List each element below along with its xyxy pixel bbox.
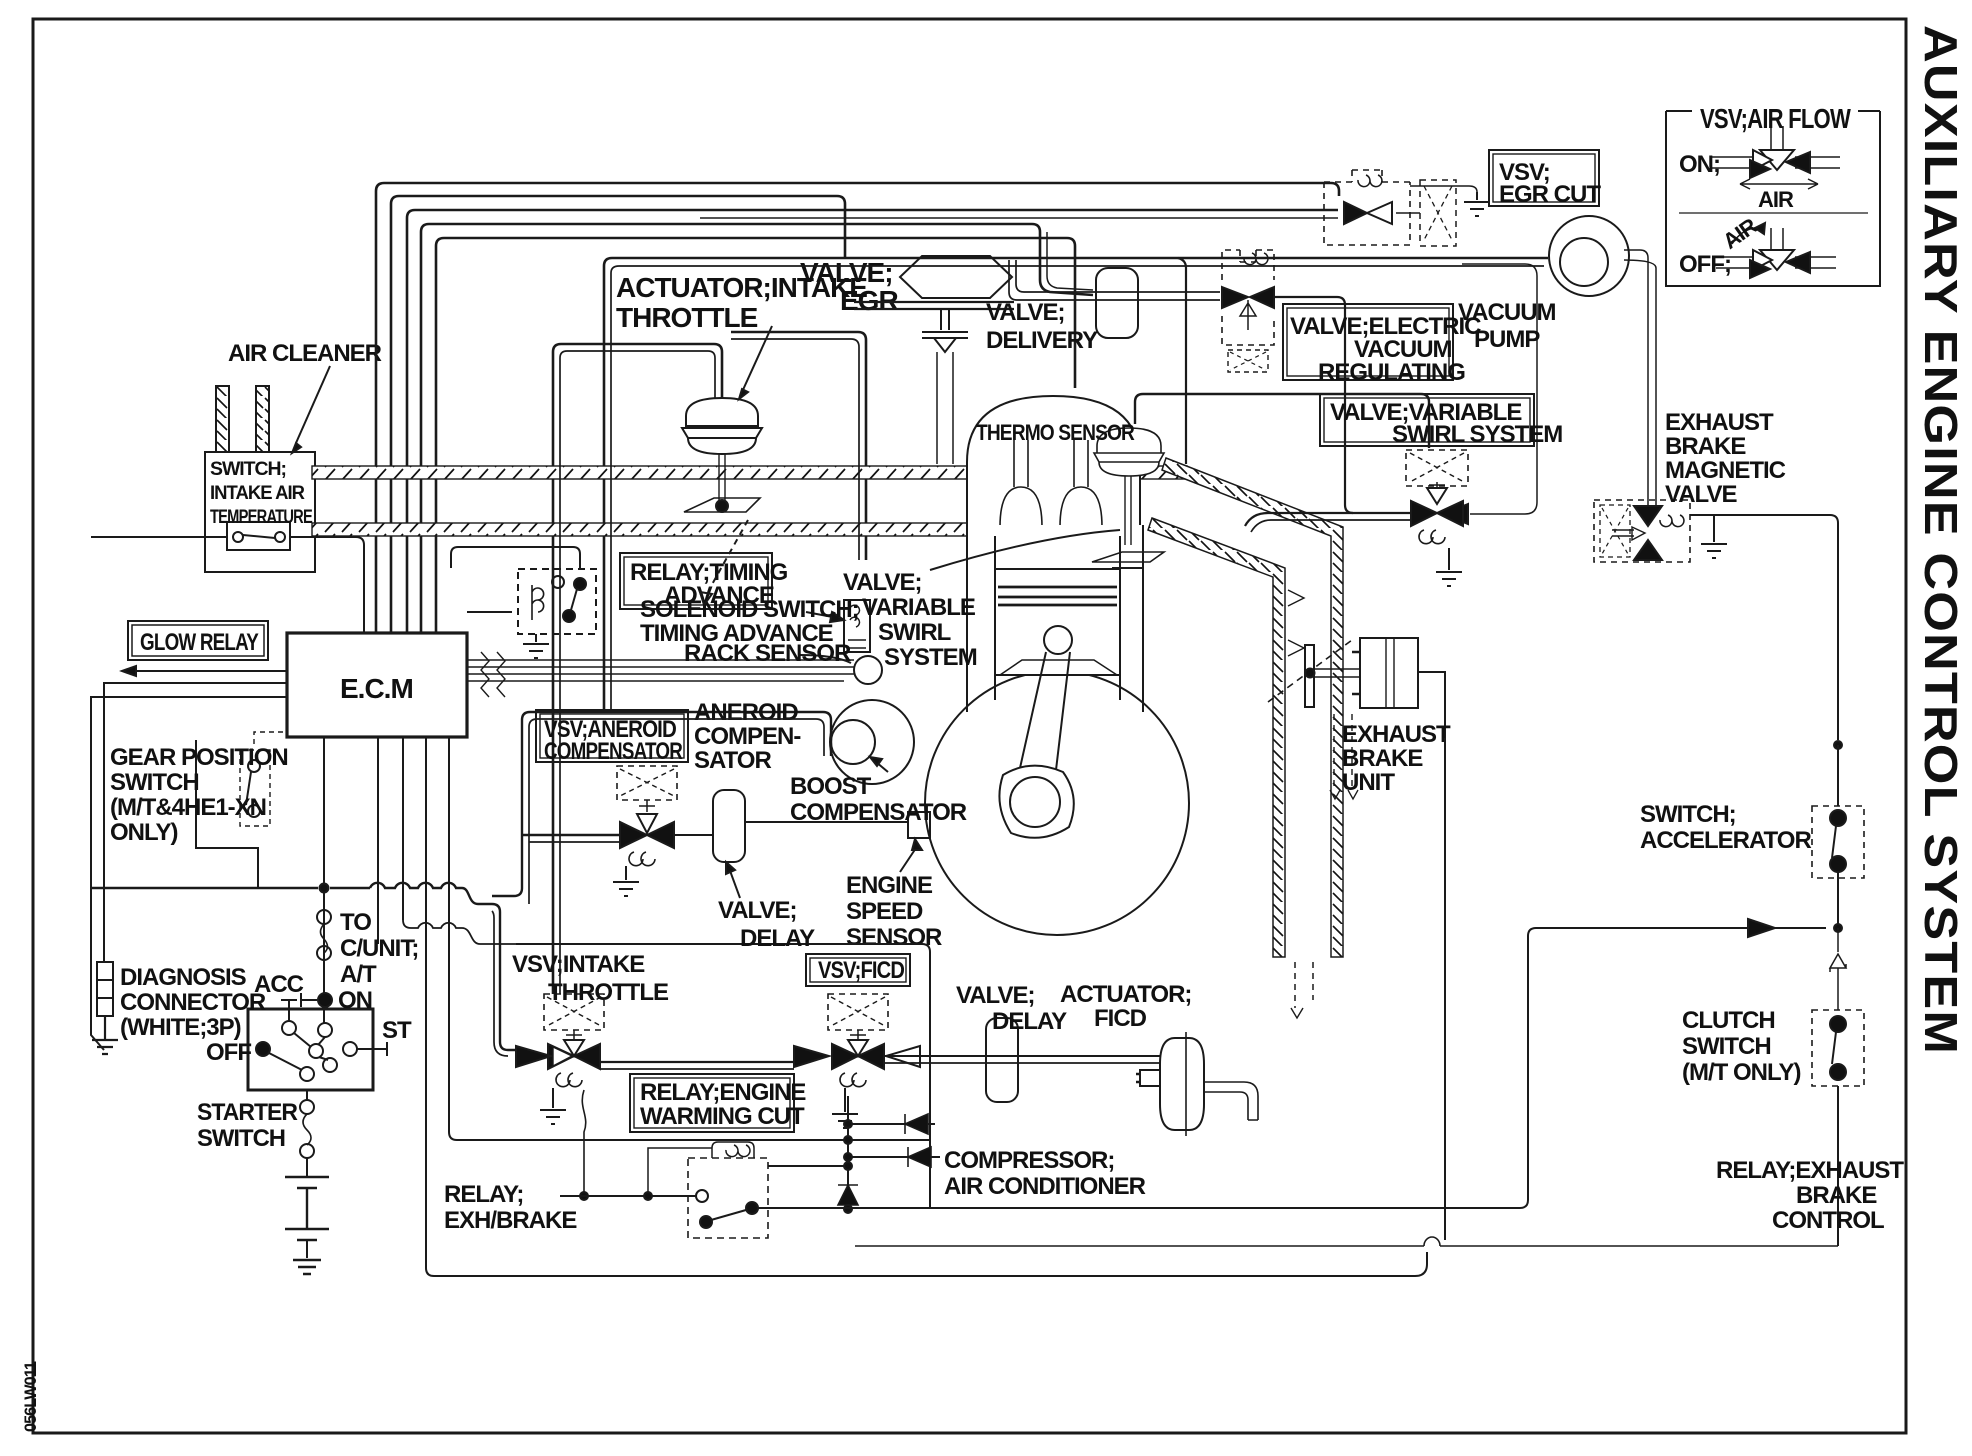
svg-text:TEMPERATURE: TEMPERATURE	[210, 507, 312, 528]
boost compensator outer	[830, 700, 914, 784]
hose aneroid valve left loop	[492, 712, 831, 896]
svg-text:THERMO SENSOR: THERMO SENSOR	[976, 420, 1135, 445]
hose vacuum pump to magnetic valve	[1624, 250, 1656, 506]
exhaust brake unit canister	[1360, 638, 1418, 708]
exhaust duct wall lower (hatched band)	[1148, 518, 1285, 957]
exhaust duct wall upper (hatched band)	[1162, 458, 1343, 957]
wire W1 ECM to exhaust-brake magnetic valve (top loop)	[376, 183, 1339, 633]
relay exh/brake contacts	[696, 1190, 708, 1202]
glow relay boxed label	[128, 621, 268, 660]
piston crown and rings	[995, 569, 1120, 675]
arrow on accel wire	[1748, 919, 1775, 937]
vertical from exhaust unit to lower wire	[1444, 738, 1446, 1240]
crank big end	[999, 766, 1073, 838]
legend ON valve white triangle	[1760, 150, 1794, 170]
svg-text:EXH/BRAKE: EXH/BRAKE	[444, 1207, 577, 1234]
svg-text:UNIT: UNIT	[1342, 769, 1395, 796]
connecting rod	[1020, 652, 1070, 770]
ON terminal dot	[318, 993, 332, 1007]
regulating valve pilot up-arrow	[1240, 300, 1256, 330]
piston pin	[1044, 626, 1072, 654]
hose aneroid valve to delay valve	[674, 834, 713, 836]
svg-text:PUMP: PUMP	[1474, 326, 1540, 353]
svg-text:AUXILIARY ENGINE CONTROL SYSTE: AUXILIARY ENGINE CONTROL SYSTEM	[1915, 25, 1967, 1055]
svg-text:ACC: ACC	[254, 971, 304, 998]
dashed leader butterfly to relay	[710, 520, 748, 588]
svg-text:AIR CLEANER: AIR CLEANER	[228, 340, 382, 367]
legend OFF right pipe + black arrow	[1795, 257, 1836, 268]
VSV intake throttle coil	[556, 1073, 582, 1087]
legend divider	[1679, 212, 1868, 214]
magnetic valve coil	[1660, 515, 1684, 527]
dashed leaders to exhaust brake unit label	[1334, 714, 1352, 790]
swirl VSV pilot triangle	[1427, 488, 1447, 504]
svg-text:SOLENOID SWITCH;: SOLENOID SWITCH;	[640, 596, 859, 623]
ON tick symbol	[301, 993, 317, 1007]
thermo intake funnels	[1000, 440, 1102, 527]
magnetic valve top black triangle	[1634, 506, 1662, 526]
vacuum pump inner circle	[1560, 238, 1608, 286]
magnetic valve left X dashed box	[1600, 505, 1630, 557]
ground below battery	[293, 1260, 321, 1274]
regulating valve coil	[1244, 253, 1268, 265]
legend OFF valve stem	[1771, 228, 1783, 250]
routing rect top wire	[516, 944, 930, 1209]
routing rect bottom wire	[434, 1252, 1427, 1276]
relay exh/brake coil	[712, 1142, 754, 1158]
svg-text:RACK SENSOR: RACK SENSOR	[684, 640, 851, 667]
aneroid VSV pilot triangle	[637, 814, 657, 833]
ECM bottom wire E	[449, 737, 930, 1140]
EGR cut coil	[1358, 175, 1382, 187]
EGR valve body	[900, 256, 1012, 298]
diagnosis connector ground	[92, 1016, 118, 1054]
svg-text:SWIRL: SWIRL	[878, 619, 951, 646]
relay exh/brake wire to coil top	[648, 1148, 712, 1196]
svg-text:EGR: EGR	[840, 285, 898, 316]
svg-text:C/UNIT;: C/UNIT;	[340, 935, 418, 962]
svg-text:ANEROID: ANEROID	[694, 699, 798, 726]
boxed label RELAY;TIMING ADVANCE	[620, 553, 772, 609]
svg-text:ON: ON	[338, 987, 372, 1014]
EGR valve outlet pipe	[937, 352, 953, 464]
svg-text:VSV;INTAKE: VSV;INTAKE	[512, 951, 645, 978]
exhaust flow arrows	[1288, 590, 1304, 656]
loop-B inner line	[611, 266, 1544, 712]
aneroid VSV dashed body	[617, 766, 677, 800]
diode 3 vertical	[838, 1185, 858, 1205]
legend AIR double arrow	[1740, 179, 1818, 189]
accelerator contacts	[1830, 810, 1846, 826]
svg-text:056LW011: 056LW011	[21, 1361, 40, 1432]
wire W2 ECM to EGR valve	[391, 196, 845, 633]
hose H_A inner line	[560, 351, 715, 994]
svg-text:VALVE;: VALVE;	[800, 257, 893, 288]
solenoid switch timing advance body	[844, 600, 870, 652]
swirl VSV dashed body	[1406, 450, 1468, 486]
svg-text:ONLY): ONLY)	[110, 819, 177, 846]
swirl VSV ground	[1436, 548, 1462, 586]
EGR cut side dashed box with X	[1420, 180, 1456, 246]
boxed label VSV;FICD	[806, 954, 910, 986]
svg-text:ENGINE: ENGINE	[846, 872, 933, 899]
hose swirl diaphragm to swirl VSV	[1135, 394, 1429, 448]
engine speed sensor leader	[900, 845, 918, 872]
intake manifold lower wall (hatched)	[312, 523, 967, 536]
leader valve variable swirl label	[930, 530, 1120, 570]
hose into swirl VSV from engine	[1245, 513, 1411, 526]
ECM bottom wire D	[426, 737, 434, 1276]
exhaust brake unit rod	[1314, 669, 1360, 677]
EGR valve flange bar	[854, 302, 1014, 309]
arrow into FICD VSV	[794, 1046, 829, 1067]
ECM bottom wire B	[377, 737, 379, 944]
svg-text:DELIVERY: DELIVERY	[986, 327, 1098, 354]
svg-text:CONTROL: CONTROL	[1772, 1207, 1884, 1234]
relay right wire up	[768, 1165, 848, 1167]
boxed label VALVE;ELECTRIC VACUUM REGULATING	[1283, 304, 1453, 380]
svg-text:RELAY;: RELAY;	[444, 1181, 523, 1208]
left vertical wire 2	[91, 697, 287, 1050]
svg-text:GLOW RELAY: GLOW RELAY	[140, 629, 259, 656]
wire magnetic valve to right bus	[1690, 515, 1838, 740]
wire W3 ECM to VSV EGR cut	[407, 210, 1338, 633]
connector circles TO C/UNIT	[317, 910, 331, 924]
horizontal wire y=886 with hops	[91, 883, 516, 1050]
swirl butterfly	[1092, 552, 1164, 562]
hose to intake throttle actuator	[553, 344, 722, 994]
svg-text:VALVE;: VALVE;	[956, 982, 1034, 1009]
exhaust brake butterfly plate	[1305, 645, 1314, 707]
VSV air flow legend box	[1666, 111, 1880, 286]
boxed label VSV;ANEROID COMPENSATOR	[536, 710, 688, 762]
actuator FICD outlet pipe	[1204, 1082, 1258, 1120]
air cleaner inlet post 1 (hatched)	[216, 386, 229, 452]
hose loop-B around actuator label	[604, 258, 1548, 712]
svg-text:COMPRESSOR;: COMPRESSOR;	[944, 1147, 1114, 1174]
legend ON right pipe + black arrow	[1795, 157, 1840, 168]
svg-text:A/T: A/T	[340, 961, 377, 988]
svg-text:VALVE;: VALVE;	[843, 569, 921, 596]
junction at right bus	[1834, 741, 1842, 749]
junction dot ON-wire	[320, 884, 329, 893]
delay valve capsule (left)	[713, 790, 745, 862]
wire aneroid bowtie to loop	[522, 834, 620, 836]
VSV EGR cut dashed body	[1324, 170, 1410, 245]
wire W5 ECM to thermo area	[436, 238, 1075, 633]
svg-text:CLUTCH: CLUTCH	[1682, 1007, 1775, 1034]
battery feed below switch	[306, 1090, 308, 1100]
regulating valve bowtie arrow	[1222, 287, 1248, 308]
wire W4 ECM to delivery valve	[421, 224, 1093, 633]
wire EGR cut box to ground	[1410, 186, 1477, 192]
open arrow right of FICD VSV	[886, 1046, 920, 1067]
svg-text:SWITCH: SWITCH	[1682, 1033, 1771, 1060]
hose branch to delivery/dome area	[1178, 258, 1186, 464]
VSV intake throttle bowtie	[548, 1044, 600, 1069]
diagnosis connector body	[97, 962, 113, 980]
starter switch box	[248, 1009, 373, 1090]
VSV intake throttle dashed body	[544, 994, 604, 1030]
compressor diode wire 1	[848, 1123, 935, 1125]
relay ground	[523, 634, 549, 658]
magnetic valve bottom black triangle	[1634, 540, 1662, 560]
aneroid bowtie wire inner line	[529, 841, 620, 843]
switch accelerator dashed box	[1812, 806, 1864, 878]
boost compensator inner	[831, 720, 875, 764]
boxed label VSV;EGR CUT	[1489, 150, 1599, 206]
VSV FICD pilot triangle	[848, 1040, 868, 1056]
svg-text:OFF: OFF	[206, 1039, 251, 1066]
svg-text:EGR CUT: EGR CUT	[1499, 181, 1601, 208]
svg-text:VARIABLE: VARIABLE	[862, 594, 976, 621]
VSV FICD dashed body	[828, 994, 888, 1030]
wire accel to junction	[1837, 872, 1839, 928]
svg-text:ON;: ON;	[1679, 151, 1720, 178]
battery symbol	[285, 1177, 329, 1240]
ACC lever	[281, 1000, 297, 1021]
cylinder walls	[967, 525, 1143, 712]
delivery valve capsule	[1096, 268, 1138, 338]
svg-text:MAGNETIC: MAGNETIC	[1665, 457, 1786, 484]
svg-text:ACTUATOR;: ACTUATOR;	[1060, 981, 1191, 1008]
arrow into intake VSV	[516, 1046, 551, 1067]
VSV intake throttle ground	[540, 1088, 566, 1124]
air cleaner inlet post 2 (hatched)	[256, 386, 269, 452]
svg-text:INTAKE AIR: INTAKE AIR	[210, 483, 305, 504]
relay timing advance dashed box	[518, 569, 596, 634]
svg-text:VALVE;: VALVE;	[986, 299, 1064, 326]
svg-text:THROTTLE: THROTTLE	[548, 979, 669, 1006]
wire arrow to glow relay	[128, 670, 287, 672]
svg-text:BRAKE: BRAKE	[1342, 745, 1423, 772]
svg-text:GEAR POSITION: GEAR POSITION	[110, 744, 288, 771]
air cleaner leader arrow	[296, 366, 330, 443]
relay output long wire	[758, 928, 1826, 1208]
intake manifold upper wall (hatched)	[312, 466, 1187, 479]
rack sensor leader	[800, 655, 851, 663]
svg-text:OFF;: OFF;	[1679, 251, 1731, 278]
svg-text:THROTTLE: THROTTLE	[616, 302, 758, 333]
thermo sensor dome	[967, 396, 1140, 528]
svg-text:(M/T ONLY): (M/T ONLY)	[1682, 1059, 1800, 1086]
aneroid VSV coil	[629, 852, 655, 866]
valve electric vacuum regulating dashed body	[1222, 250, 1274, 345]
ECM bottom wire C	[402, 737, 404, 920]
hose ECM-right to timing advance relay	[451, 547, 580, 612]
compressor branch vertical	[847, 1096, 849, 1209]
VSV FICD coil	[840, 1073, 866, 1087]
swirl actuator diaphragm	[1094, 428, 1164, 476]
svg-text:VSV;AIR FLOW: VSV;AIR FLOW	[1700, 103, 1851, 134]
svg-text:BRAKE: BRAKE	[1796, 1182, 1877, 1209]
svg-text:WARMING CUT: WARMING CUT	[640, 1103, 805, 1130]
wire from EGR-cut X-box arrow	[1396, 212, 1420, 214]
magnetic valve white arrow from X-box	[1612, 527, 1645, 540]
svg-text:COMPEN-: COMPEN-	[694, 723, 801, 750]
clutch contacts	[1830, 1016, 1846, 1032]
FICD-actuator hose inner line	[884, 1062, 1160, 1064]
ST terminal	[357, 1042, 387, 1056]
delivery feed inner line	[1047, 232, 1093, 290]
svg-text:(M/T&4HE1-XN: (M/T&4HE1-XN	[110, 794, 266, 821]
svg-text:RELAY;EXHAUST: RELAY;EXHAUST	[1716, 1157, 1904, 1184]
actuator FICD bolt	[1140, 1070, 1160, 1086]
legend ON valve: stem lines	[1771, 126, 1783, 150]
wire crossing squiggle	[481, 652, 505, 697]
legend OFF left pipe + white arrow	[1716, 257, 1753, 268]
solenoid leader arrow	[806, 612, 838, 618]
svg-text:VSV;FICD: VSV;FICD	[818, 957, 905, 984]
hose H_B inner line	[731, 339, 859, 560]
cylinder block mask	[967, 525, 1143, 675]
svg-text:SWITCH;: SWITCH;	[1640, 801, 1736, 828]
boxed label RELAY;ENGINE WARMING CUT	[630, 1074, 794, 1132]
svg-text:REGULATING: REGULATING	[1318, 359, 1465, 386]
svg-text:COMPENSATOR: COMPENSATOR	[544, 738, 683, 765]
svg-text:AIR CONDITIONER: AIR CONDITIONER	[944, 1173, 1146, 1200]
svg-text:DIAGNOSIS: DIAGNOSIS	[120, 964, 247, 991]
wire intake VSV to FICD VSV	[600, 1061, 794, 1063]
wire delay to speed sensor	[745, 821, 908, 823]
actuator FICD capsule	[1160, 1038, 1204, 1130]
svg-text:SWITCH: SWITCH	[110, 769, 199, 796]
svg-text:FICD: FICD	[1094, 1005, 1147, 1032]
svg-text:AIR: AIR	[1758, 187, 1794, 212]
wire from temp sensor to left bus	[91, 536, 227, 538]
legend OFF white triangle	[1760, 250, 1794, 270]
svg-text:AIR: AIR	[1718, 213, 1762, 254]
relay exh/brake dashed box	[688, 1158, 768, 1238]
boxed label VALVE;VARIABLE SWIRL SYSTEM	[1320, 394, 1534, 446]
intake-FICD hose inner line	[600, 1068, 794, 1070]
wire clutch down to lower bus	[1837, 1086, 1839, 1246]
wire intake VSV coil to exh relay	[582, 1090, 585, 1192]
ground left of VSV EGR cut label	[1464, 192, 1490, 216]
flywheel circle	[925, 671, 1189, 935]
svg-text:SWITCH;: SWITCH;	[210, 459, 286, 480]
relay coil	[532, 585, 544, 620]
svg-text:COMPENSATOR: COMPENSATOR	[790, 799, 967, 826]
svg-text:SPEED: SPEED	[846, 898, 923, 925]
ECM bottom wire A (ignition feed)	[323, 737, 325, 1023]
gear position switch contacts	[196, 740, 258, 888]
switch; intake air temperature box	[205, 452, 315, 572]
label leader actuator intake throttle	[742, 326, 772, 392]
svg-text:TO: TO	[340, 909, 371, 936]
legend ON left pipe + white arrow	[1712, 157, 1753, 168]
svg-text:VALVE;: VALVE;	[718, 897, 796, 924]
delay valve capsule (right)	[986, 1018, 1018, 1102]
swirl feed inner line	[1251, 520, 1411, 532]
actuator intake throttle diaphragm	[686, 398, 758, 426]
swirl VSV coil	[1419, 530, 1445, 544]
svg-text:BRAKE: BRAKE	[1665, 433, 1746, 460]
wires ECM to rack sensor (4)	[467, 660, 854, 681]
boost compensator leader	[876, 762, 888, 772]
wire W3b parallel line into EGR cut valve	[700, 217, 1338, 219]
svg-text:CONNECTOR: CONNECTOR	[120, 989, 266, 1016]
right bus wire down through accelerator switch	[1837, 745, 1839, 806]
wire from exhaust brake unit	[1418, 672, 1445, 738]
regulating valve lower X dashed box	[1228, 350, 1268, 372]
svg-text:ST: ST	[382, 1017, 412, 1044]
hose to solenoid/boost branch	[731, 332, 866, 560]
diode 2	[908, 1147, 931, 1167]
compressor diode wire 2	[848, 1156, 940, 1158]
relay exh/brake left wires	[560, 1195, 696, 1197]
relay contacts	[552, 576, 564, 588]
wire FICD valve to actuator	[884, 1055, 1160, 1057]
piston skirt	[1000, 660, 1117, 675]
svg-text:ACCELERATOR: ACCELERATOR	[1640, 827, 1811, 854]
svg-text:VALVE: VALVE	[1665, 481, 1737, 508]
hose double lines	[492, 232, 1544, 1069]
svg-text:BOOST: BOOST	[790, 773, 872, 800]
intake throttle butterfly	[684, 498, 760, 512]
EGR cut bowtie	[1344, 202, 1367, 224]
svg-text:EXHAUST: EXHAUST	[1342, 721, 1451, 748]
aneroid VSV bowtie valve	[620, 822, 674, 848]
svg-text:SATOR: SATOR	[694, 747, 771, 774]
E.C.M box	[287, 633, 467, 737]
zener diode symbol	[1830, 928, 1846, 1010]
svg-text:DELAY: DELAY	[740, 925, 815, 952]
svg-text:EXHAUST: EXHAUST	[1665, 409, 1774, 436]
svg-text:E.C.M: E.C.M	[340, 673, 413, 704]
aneroid VSV ground	[613, 866, 639, 896]
diode 1	[905, 1114, 928, 1134]
vacuum pump outer circle	[1549, 216, 1629, 296]
svg-text:RELAY;ENGINE: RELAY;ENGINE	[640, 1079, 806, 1106]
horizontal wire y=930 to intake VSV	[403, 920, 516, 944]
left vertical wire 1	[104, 683, 287, 962]
hose from regulating valve to swirl line	[1274, 297, 1353, 513]
svg-text:(WHITE;3P): (WHITE;3P)	[120, 1014, 241, 1041]
hose pump branch to swirl VSV	[1462, 264, 1537, 514]
duct outlet dashed	[1295, 962, 1313, 1008]
VSV intake throttle pilot triangle	[564, 1040, 584, 1056]
svg-text:SYSTEM: SYSTEM	[884, 644, 977, 671]
svg-text:SWIRL SYSTEM: SWIRL SYSTEM	[1392, 421, 1562, 448]
exhaust brake magnetic valve dashed box	[1594, 500, 1690, 562]
valve delay leader	[729, 868, 740, 898]
actuator stem	[719, 454, 725, 502]
VSV FICD bowtie	[832, 1044, 884, 1069]
lower cross wire with hop	[855, 1237, 1838, 1246]
svg-text:SWITCH: SWITCH	[197, 1125, 285, 1152]
intake air temp sensor element	[227, 522, 290, 550]
svg-text:STARTER: STARTER	[197, 1099, 298, 1126]
wire from temp sensor right to ECM top	[290, 537, 364, 633]
VSV FICD ground	[832, 1088, 858, 1128]
aneroid loop inner line	[529, 719, 824, 904]
clutch switch dashed box	[1812, 1010, 1864, 1086]
swirl actuator stem	[1125, 476, 1131, 545]
rack sensor circle	[854, 656, 882, 684]
svg-text:DELAY: DELAY	[992, 1008, 1067, 1035]
EGR valve stem and poppet	[922, 309, 968, 352]
magnetic valve ground	[1700, 515, 1727, 558]
row1 pipe inner line	[492, 911, 508, 1056]
regulating valve feed pair	[1016, 260, 1220, 292]
legend OFF curved AIR arrow	[1732, 228, 1762, 244]
starter switch contacts	[282, 1021, 296, 1035]
swirl VSV bowtie	[1411, 501, 1463, 526]
engine speed sensor square	[908, 812, 930, 838]
